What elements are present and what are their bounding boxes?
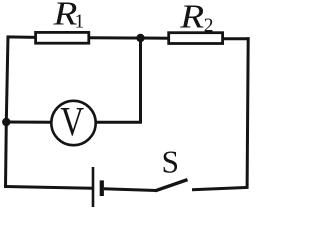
wire voltmeter to vertical branch — [96, 121, 142, 124]
wire R2 to top-right corner — [223, 37, 250, 40]
battery short plate — [100, 180, 104, 196]
wire vertical branch from junction — [139, 38, 142, 124]
resistor R1 — [36, 32, 89, 43]
svg-text:S: S — [162, 145, 180, 180]
wire junction to R2 — [141, 37, 171, 40]
resistor R2 — [169, 33, 223, 44]
node on left wire — [2, 118, 10, 126]
svg-text:1: 1 — [75, 11, 85, 32]
wire battery to bottom-left corner — [5, 187, 92, 189]
switch S lever — [155, 180, 187, 191]
wire top-left: corner to R1 — [7, 35, 37, 39]
node junction dot — [136, 34, 144, 42]
label S — [162, 145, 180, 180]
svg-text:2: 2 — [204, 16, 214, 37]
wire node to voltmeter — [6, 121, 51, 124]
voltmeter V — [51, 99, 95, 145]
wire R1 to junction — [89, 36, 141, 39]
wire switch to battery — [104, 189, 156, 191]
label R1 — [52, 0, 84, 32]
wire left side vertical — [6, 36, 9, 189]
svg-text:R: R — [179, 0, 204, 35]
wire bottom-right to switch — [192, 187, 249, 189]
wire right side vertical — [247, 37, 248, 188]
label R2 — [179, 0, 213, 36]
svg-text:V: V — [60, 99, 84, 144]
battery long plate — [92, 167, 95, 207]
